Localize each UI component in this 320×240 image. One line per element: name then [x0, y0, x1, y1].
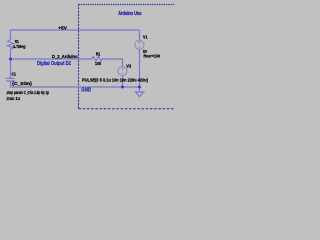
svg-text:.tran 1u: .tran 1u [6, 96, 20, 101]
svg-text:PULSE(0 5 0.1u 10n 10n 220u 42: PULSE(0 5 0.1u 10n 10n 220u 420u) [82, 78, 148, 83]
svg-text:100: 100 [95, 61, 102, 66]
svg-text:D_2_Arduino: D_2_Arduino [52, 54, 78, 59]
svg-text:+5V: +5V [58, 26, 68, 31]
svg-text:.step param C_trim 1.5p 5p 1p: .step param C_trim 1.5p 5p 1p [6, 90, 49, 95]
svg-text:R2: R2 [96, 51, 101, 56]
svg-text:V1: V1 [143, 35, 148, 40]
svg-text:C1: C1 [12, 72, 17, 77]
svg-text:Rser=100: Rser=100 [144, 54, 161, 59]
svg-text:{C_trim}: {C_trim} [12, 81, 32, 86]
svg-text:4.7Meg: 4.7Meg [13, 44, 26, 49]
svg-text:Arduino Uno: Arduino Uno [118, 11, 142, 17]
svg-text:V2: V2 [126, 63, 132, 68]
svg-text:GND: GND [81, 88, 91, 94]
svg-text:Digital Output D2: Digital Output D2 [37, 61, 71, 67]
